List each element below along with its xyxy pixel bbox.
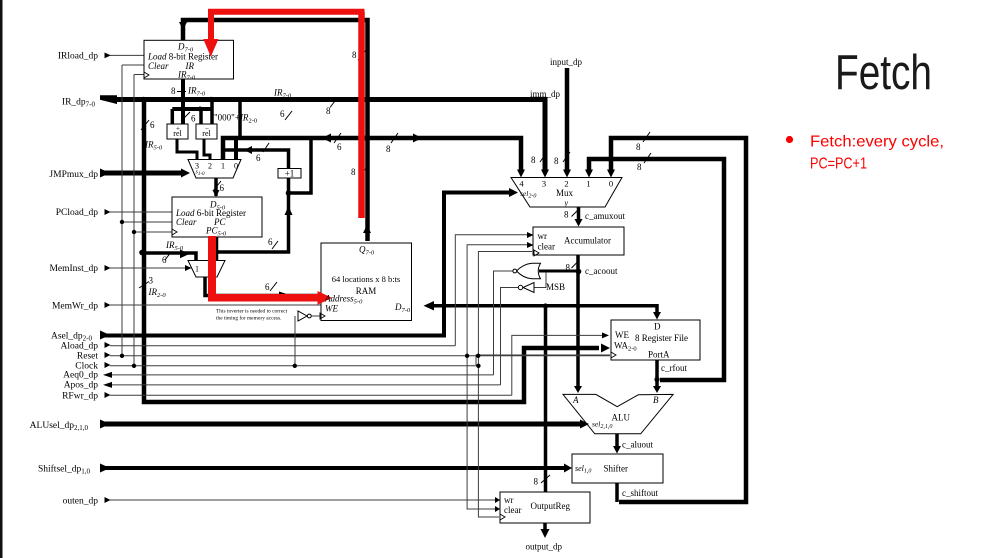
svg-text:8: 8 xyxy=(534,477,539,487)
svg-text:clear: clear xyxy=(504,505,521,515)
svg-text:ALU: ALU xyxy=(612,413,631,423)
svg-text:B: B xyxy=(653,395,659,405)
svg-text:PortA: PortA xyxy=(648,350,670,360)
svg-text:RAM: RAM xyxy=(356,286,377,296)
svg-text:8 Register File: 8 Register File xyxy=(635,333,688,343)
svg-text:6: 6 xyxy=(256,153,261,163)
svg-text:A: A xyxy=(572,395,579,405)
svg-text:6: 6 xyxy=(337,142,342,152)
svg-text:JMPmux_dp: JMPmux_dp xyxy=(49,170,98,180)
svg-text:8: 8 xyxy=(566,263,571,273)
svg-text:6: 6 xyxy=(220,183,225,193)
svg-text:Fetch:every cycle,: Fetch:every cycle, xyxy=(810,134,944,151)
svg-text:6: 6 xyxy=(268,237,273,247)
svg-text:input_dp: input_dp xyxy=(550,57,583,67)
svg-text:8: 8 xyxy=(531,155,536,165)
svg-text:8: 8 xyxy=(637,162,642,172)
svg-text:c_shiftout: c_shiftout xyxy=(622,488,658,498)
svg-text:−: − xyxy=(205,125,209,133)
svg-text:c_amuxout: c_amuxout xyxy=(585,211,625,221)
svg-text:c_aluout: c_aluout xyxy=(622,440,653,450)
svg-text:6: 6 xyxy=(191,114,196,124)
svg-text:1: 1 xyxy=(221,162,225,171)
svg-text:PCload_dp: PCload_dp xyxy=(56,208,98,218)
svg-text:3: 3 xyxy=(542,179,546,189)
svg-text:c_rfout: c_rfout xyxy=(661,363,687,373)
svg-text:8: 8 xyxy=(636,142,641,152)
svg-text:IRload_dp: IRload_dp xyxy=(58,51,98,61)
svg-text:8: 8 xyxy=(326,106,331,116)
svg-text:Accumulator: Accumulator xyxy=(564,236,611,246)
svg-text:OutputReg: OutputReg xyxy=(531,501,571,511)
svg-text:64 locations x 8 b:ts: 64 locations x 8 b:ts xyxy=(332,274,400,284)
svg-text:8: 8 xyxy=(352,50,357,60)
svg-text:wr: wr xyxy=(504,495,514,505)
svg-text:c_acoout: c_acoout xyxy=(585,266,618,276)
svg-text:6: 6 xyxy=(150,120,155,130)
svg-text:2: 2 xyxy=(208,162,212,171)
svg-text:imm_dp: imm_dp xyxy=(530,89,561,99)
svg-text:Mux: Mux xyxy=(556,188,574,198)
svg-text:0: 0 xyxy=(234,162,238,171)
svg-text:0: 0 xyxy=(609,179,613,189)
svg-text:Shifter: Shifter xyxy=(604,464,629,474)
svg-text:Reset: Reset xyxy=(77,352,98,362)
svg-text:Clear: Clear xyxy=(148,61,169,71)
svg-text:6: 6 xyxy=(162,255,167,265)
svg-text:WE: WE xyxy=(325,304,338,314)
svg-text:clear: clear xyxy=(538,242,555,252)
svg-text:8: 8 xyxy=(386,144,391,154)
svg-text:+1: +1 xyxy=(285,169,295,179)
svg-text:+: + xyxy=(176,125,180,133)
svg-text:RFwr_dp: RFwr_dp xyxy=(62,392,98,402)
svg-text:This inverter is needed to cor: This inverter is needed to correct xyxy=(216,309,288,315)
svg-text:3: 3 xyxy=(149,276,154,286)
svg-text:2: 2 xyxy=(564,179,568,189)
svg-text:the timing for memory access.: the timing for memory access. xyxy=(216,315,281,322)
svg-text:1: 1 xyxy=(586,179,590,189)
svg-text:MemInst_dp: MemInst_dp xyxy=(49,264,98,274)
svg-text:y: y xyxy=(564,199,569,208)
svg-text:1: 1 xyxy=(195,265,199,274)
svg-text:Aeq0_dp: Aeq0_dp xyxy=(63,371,98,381)
svg-text:8: 8 xyxy=(564,210,569,220)
svg-text:WE: WE xyxy=(615,330,629,340)
svg-text:8: 8 xyxy=(554,156,559,166)
svg-text:outen_dp: outen_dp xyxy=(63,497,99,507)
svg-text:6: 6 xyxy=(280,109,285,119)
svg-text:8: 8 xyxy=(171,86,176,96)
svg-text:wr: wr xyxy=(538,231,548,241)
svg-text:MemWr_dp: MemWr_dp xyxy=(52,302,98,312)
svg-text:Apos_dp: Apos_dp xyxy=(64,381,99,391)
svg-text:8: 8 xyxy=(351,167,356,177)
svg-text:MSB: MSB xyxy=(546,282,565,292)
svg-text:Fetch: Fetch xyxy=(835,46,932,100)
svg-text:D: D xyxy=(654,322,661,332)
svg-text:Load 8-bit Register: Load 8-bit Register xyxy=(147,51,218,61)
svg-text:PC=PC+1: PC=PC+1 xyxy=(810,156,867,173)
svg-text:6: 6 xyxy=(265,282,270,292)
svg-text:Aload_dp: Aload_dp xyxy=(61,342,99,352)
svg-text:output_dp: output_dp xyxy=(526,542,563,552)
svg-text:Clear: Clear xyxy=(176,217,197,227)
